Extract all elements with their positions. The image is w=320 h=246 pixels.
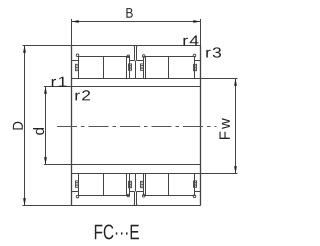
dimension d line	[45, 87, 47, 165]
center axis line	[57, 126, 217, 128]
label d	[33, 128, 44, 135]
outer ring joint shoulder arcs (bottom)	[133, 204, 138, 206]
label Fw	[219, 118, 229, 139]
roller row 4 mirror (bottom right)	[169, 174, 195, 196]
roller row 1 mirror (bottom left)	[79, 174, 104, 196]
right side rib step (top)	[195, 60, 201, 62]
label r3	[206, 47, 221, 57]
center flange step right (top)	[137, 60, 144, 62]
center flange step right (bottom)	[137, 191, 144, 193]
label D	[13, 122, 23, 130]
dimension D line	[24, 46, 26, 206]
label r2	[75, 90, 90, 100]
right side rib step (bottom)	[195, 191, 201, 193]
rib chamfer circle top-right	[193, 54, 196, 57]
outer raceway top-right	[144, 56, 195, 58]
cage section bottom-center-left	[129, 181, 132, 187]
outer raceway bottom-right	[144, 195, 195, 197]
cage joint line (top)	[135, 61, 137, 79]
flange chamfer circle top-center-left	[127, 55, 130, 58]
flange chamfer circle top-center-right	[142, 55, 145, 58]
bearing right face	[200, 46, 202, 206]
outer ring joint shoulder arcs (top)	[133, 46, 138, 48]
dimension B right arrow	[193, 20, 200, 23]
flange chamfer circle bottom-center-right	[142, 195, 145, 198]
label B	[126, 8, 132, 18]
dimension B left extension	[71, 19, 73, 46]
center flange left edge (top)	[129, 57, 131, 79]
cage section top-center-left	[129, 64, 132, 70]
dimension B right extension	[200, 19, 202, 46]
dimension Fw bottom arrow	[234, 166, 237, 173]
left side rib step (bottom)	[72, 191, 79, 193]
inner raceway bottom line (Fw extension)	[72, 173, 238, 175]
rib chamfer circle top-left	[76, 54, 79, 57]
cage section bottom-center-right	[141, 181, 144, 187]
dimension B line	[72, 21, 201, 23]
outer ring joint right line (top)	[136, 47, 138, 61]
outer raceway top-left	[78, 56, 130, 58]
outer ring joint right line (bottom)	[136, 192, 138, 205]
center flange right edge (bottom)	[143, 174, 145, 196]
dimension Fw line	[235, 79, 237, 174]
label r1	[52, 77, 67, 87]
roller row 3 (top right-center)	[146, 57, 169, 79]
roller row 2 mirror (bottom left-center)	[104, 174, 127, 196]
outer raceway bottom-left	[78, 195, 130, 197]
outer ring joint left line (top)	[134, 47, 136, 61]
rib chamfer circle bottom-left	[76, 195, 79, 198]
dimension D bottom arrow	[23, 198, 26, 205]
cage section bottom-left	[76, 181, 79, 187]
dimension d top arrow	[44, 87, 47, 94]
inner ring bore top line (d extension)	[44, 86, 201, 88]
roller row 2 (top left-center)	[104, 57, 127, 79]
cage joint line (bottom)	[135, 174, 137, 192]
label r4	[183, 36, 198, 46]
center flange right edge (top)	[143, 57, 145, 79]
cage section bottom-right	[194, 181, 197, 187]
dimension D top arrow	[23, 46, 26, 53]
dimension B left arrow	[72, 20, 79, 23]
flange chamfer circle bottom-center-left	[127, 194, 130, 197]
roller row 4 (top right)	[169, 57, 195, 79]
outer ring joint left line (bottom)	[134, 192, 136, 205]
center flange step left (top)	[130, 60, 135, 62]
dimension Fw top arrow	[234, 79, 237, 86]
left side rib step (top)	[72, 60, 79, 62]
center flange left edge (bottom)	[129, 174, 131, 196]
roller row 1 (top left)	[79, 57, 104, 79]
inner ring bore bottom line (d extension)	[44, 164, 201, 166]
rib chamfer circle bottom-right	[193, 195, 196, 198]
roller row 3 mirror (bottom right-center)	[146, 174, 169, 196]
outer ring OD top line (with D extension)	[23, 45, 201, 47]
cage section top-center-right	[141, 64, 144, 70]
caption FC···E	[95, 225, 139, 240]
center flange step left (bottom)	[130, 191, 135, 193]
cage section top-left	[76, 64, 79, 70]
dimension d bottom arrow	[44, 157, 47, 164]
bearing left face	[71, 46, 73, 206]
cage section top-right	[194, 64, 197, 70]
inner raceway top line (Fw extension)	[72, 78, 238, 80]
outer ring OD bottom line (with D extension)	[23, 205, 201, 207]
